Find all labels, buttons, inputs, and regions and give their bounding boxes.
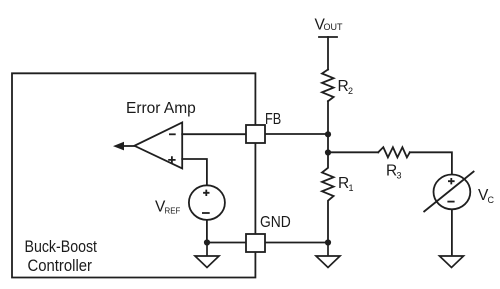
- svg-text:Buck-Boost: Buck-Boost: [25, 237, 98, 256]
- svg-text:Error Amp: Error Amp: [126, 100, 196, 117]
- svg-text:GND: GND: [260, 214, 291, 231]
- svg-text:1: 1: [349, 183, 354, 193]
- svg-text:C: C: [488, 195, 495, 205]
- svg-text:2: 2: [348, 86, 353, 96]
- svg-text:3: 3: [397, 171, 402, 181]
- svg-text:REF: REF: [165, 206, 181, 216]
- svg-text:Controller: Controller: [28, 256, 93, 275]
- svg-text:OUT: OUT: [324, 22, 344, 32]
- svg-text:FB: FB: [265, 111, 281, 128]
